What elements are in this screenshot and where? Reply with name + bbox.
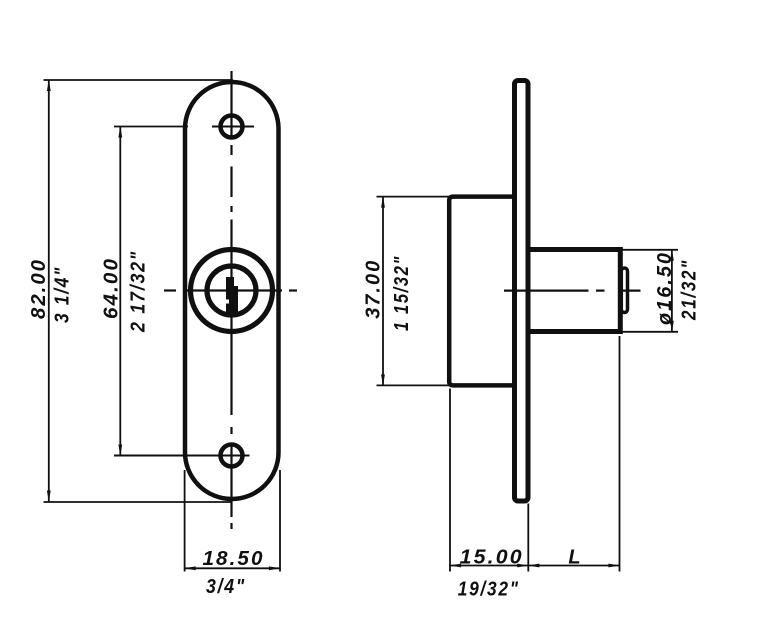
svg-text:ø16.50: ø16.50 — [654, 251, 676, 325]
svg-text:L: L — [568, 547, 582, 569]
svg-text:18.50: 18.50 — [203, 548, 265, 570]
svg-text:3 1/4": 3 1/4" — [52, 266, 74, 323]
svg-text:2 17/32": 2 17/32" — [128, 250, 150, 333]
svg-text:3/4": 3/4" — [206, 576, 246, 598]
svg-text:64.00: 64.00 — [101, 257, 123, 319]
svg-text:37.00: 37.00 — [363, 259, 385, 319]
svg-text:1 15/32": 1 15/32" — [391, 255, 413, 331]
svg-text:15.00: 15.00 — [460, 547, 524, 569]
svg-text:82.00: 82.00 — [28, 258, 50, 319]
svg-text:19/32": 19/32" — [458, 579, 520, 601]
svg-text:21/32": 21/32" — [679, 259, 701, 321]
